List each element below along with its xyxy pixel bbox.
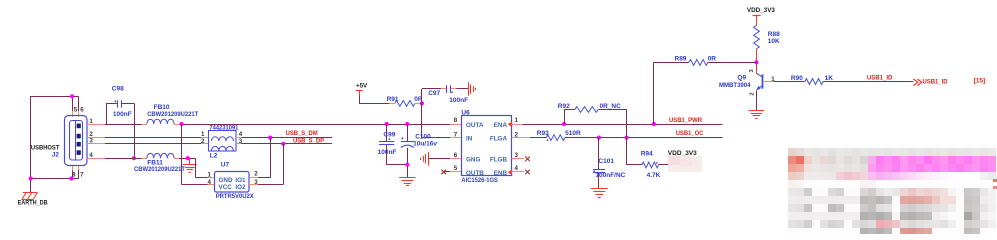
frame border marks right edge — [993, 179, 997, 189]
svg-text:2: 2 — [254, 171, 258, 178]
svg-text:2: 2 — [201, 138, 205, 145]
blur patch over VDD_3V3 symbol — [668, 156, 702, 172]
svg-text:10K: 10K — [768, 38, 780, 45]
resistor R93 — [546, 135, 565, 141]
value PRTR5V0U2X (U7) — [216, 193, 255, 200]
label C97 — [428, 90, 440, 97]
svg-text:USB1_PWR: USB1_PWR — [669, 117, 702, 124]
value 0R (R89) — [708, 55, 717, 62]
capacitor C98 — [115, 100, 122, 107]
svg-text:AIC1526-1GS: AIC1526-1GS — [461, 177, 498, 184]
svg-text:8: 8 — [454, 117, 458, 124]
svg-text:EARTH_DB: EARTH_DB — [18, 200, 48, 207]
label R88 — [768, 31, 780, 38]
pin number 1 (U6) — [515, 117, 519, 124]
svg-text:IO2: IO2 — [235, 184, 246, 191]
svg-text:FLGB: FLGB — [490, 157, 508, 164]
wire C98 left lead — [106, 103, 117, 124]
svg-text:[15]: [15] — [974, 78, 985, 85]
junction pin8/bottom wire — [69, 176, 73, 180]
svg-text:4: 4 — [208, 179, 212, 186]
svg-text:R91: R91 — [387, 96, 399, 103]
label U7 — [221, 161, 230, 168]
pin number 6 (U6) — [454, 152, 458, 159]
capacitor C99 — [379, 138, 394, 144]
wire J2 pin4 stub — [87, 158, 105, 160]
label R94 — [641, 151, 653, 158]
ground at C97 (rotated) — [469, 82, 476, 96]
resistor R92 — [575, 107, 599, 113]
wire OC to R94 — [627, 138, 642, 165]
wire C99 bottom lead — [387, 145, 408, 165]
pin number 8 (U6) — [454, 117, 458, 124]
pin number 3 (Q9) — [749, 69, 755, 73]
svg-text:FB10: FB10 — [154, 104, 170, 111]
choke L2 windings — [212, 137, 234, 151]
pin number 2 (Q9) — [750, 92, 756, 95]
pin number 3 (L2) — [239, 138, 243, 145]
label C99 — [383, 131, 395, 138]
value 744231091 (L2) — [209, 124, 238, 131]
value 510R (R93) — [565, 130, 581, 137]
svg-text:VDD_3V3: VDD_3V3 — [747, 7, 776, 14]
resistor R89 — [689, 60, 708, 66]
wire FB10 left pin — [142, 124, 147, 126]
svg-text:5: 5 — [74, 107, 78, 114]
wire R89 drop to PWR — [653, 62, 655, 124]
net label USB_S_DM — [286, 130, 318, 137]
junction FB10 output node — [179, 122, 183, 126]
junction pin5/earth — [70, 94, 74, 98]
arrow ENA input — [508, 122, 513, 128]
value 100nF/NC (C101) — [595, 172, 625, 179]
svg-text:U7: U7 — [221, 161, 230, 168]
label R93 — [537, 130, 549, 137]
svg-text:L2: L2 — [210, 152, 218, 159]
no-connect X OUTB — [441, 170, 446, 175]
off-page connector USB1_ID — [913, 79, 947, 86]
ground at FB11 node — [183, 158, 197, 172]
pin number 1 (Q9) — [771, 76, 775, 83]
svg-text:PRTR5V0U2X: PRTR5V0U2X — [216, 193, 255, 200]
svg-text:IN: IN — [466, 136, 473, 143]
svg-text:7: 7 — [80, 171, 84, 178]
svg-text:R92: R92 — [558, 103, 570, 110]
svg-text:C97: C97 — [428, 90, 440, 97]
pin number 2 (J2) — [89, 131, 93, 138]
junction FB11 output/ground — [186, 156, 190, 160]
pin name GNG — [466, 157, 480, 164]
svg-text:U6: U6 — [461, 110, 470, 117]
junction R88/R89/collector — [754, 60, 758, 64]
wire C99 top lead — [386, 124, 388, 141]
choke L2 body — [209, 131, 237, 152]
label R89 — [675, 55, 687, 62]
pin name GND (U7) — [219, 177, 233, 184]
pin number 6 (J2) — [80, 107, 84, 114]
pin name IN — [466, 136, 473, 143]
wire J2 pin2 stub — [87, 137, 105, 139]
svg-text:USB1_OC: USB1_OC — [676, 130, 704, 137]
junction C98/GND line — [132, 156, 136, 160]
svg-text:R89: R89 — [675, 55, 687, 62]
label VDD_3V3 at R94 — [668, 150, 698, 157]
svg-text:VCC: VCC — [219, 184, 233, 191]
pin name ENB — [494, 170, 508, 177]
svg-text:ENB: ENB — [494, 170, 508, 177]
pin number 3 (J2) — [89, 138, 93, 145]
junction R94/R92 on OC — [625, 136, 629, 140]
svg-text:C99: C99 — [383, 131, 395, 138]
svg-text:1K: 1K — [825, 75, 834, 82]
wire FB11 left pin — [142, 158, 147, 160]
junction R92 left on PWR — [562, 122, 566, 126]
label C98 — [112, 85, 124, 92]
wire R92 left leg — [564, 110, 575, 125]
junction U7 IO1 on DM — [268, 136, 272, 140]
svg-text:USB_S_DP: USB_S_DP — [293, 137, 325, 144]
svg-text:1: 1 — [208, 172, 212, 179]
wire J2 pin 7 stub — [78, 165, 80, 178]
wire C100 top lead — [407, 124, 409, 141]
svg-text:GNG: GNG — [466, 157, 480, 164]
svg-text:100nF/NC: 100nF/NC — [595, 172, 625, 179]
svg-text:3: 3 — [254, 179, 258, 186]
pin name IO1 (U7) — [235, 177, 246, 184]
svg-text:CBW201209U221T: CBW201209U221T — [134, 166, 185, 173]
svg-text:4: 4 — [515, 165, 519, 172]
ground under Q9 — [749, 111, 765, 119]
power VDD_3V3 symbol — [747, 7, 776, 25]
value 0R_NC (R92) — [600, 103, 622, 110]
svg-text:CBW201209U221T: CBW201209U221T — [147, 111, 198, 118]
pin number 4 (J2) — [89, 152, 93, 159]
wire L2 pin2 stub — [201, 143, 209, 145]
wire C100 bottom lead — [407, 148, 409, 178]
pin number 2 (L2) — [201, 138, 205, 145]
ferrite bead FB10 — [147, 119, 174, 124]
junction U7 IO2 on DP — [281, 142, 285, 146]
ground at GNG (rotated left) — [421, 152, 429, 166]
wire VBUS FB10 to U6 OUTA — [179, 124, 450, 126]
value 100nF (C99) — [378, 149, 397, 156]
wire USB_S_DP — [242, 143, 332, 145]
svg-text:6: 6 — [454, 152, 458, 159]
power switch U6 body — [462, 116, 512, 176]
wire U6 pin8 stub — [450, 124, 461, 126]
wire R89 right — [708, 62, 757, 64]
value 0R (R91) — [414, 96, 423, 103]
pin number 3 (U7) — [254, 179, 258, 186]
label USBHOST — [31, 145, 60, 152]
resistor R91 — [395, 101, 415, 107]
svg-text:OUTB: OUTB — [466, 170, 484, 177]
svg-text:4: 4 — [89, 152, 93, 159]
resistor R90 — [805, 79, 823, 85]
svg-text:100nF: 100nF — [378, 149, 397, 156]
junction R91 node — [420, 101, 424, 105]
label L2 — [210, 152, 218, 159]
value CBW201209U221T (FB10) — [147, 111, 198, 118]
pin name ENA — [494, 122, 508, 129]
svg-text:1: 1 — [515, 117, 519, 124]
label Q9 — [737, 75, 746, 82]
no-connect X ENB — [525, 170, 530, 175]
value 10K (R88) — [768, 38, 780, 45]
power +5V symbol — [356, 83, 368, 96]
wire ground node to U7 GND — [195, 158, 214, 178]
value 100nF (C98) — [113, 111, 132, 118]
wire earth vertical to EARTH_DB — [30, 96, 32, 193]
ground under C101 — [591, 189, 608, 198]
wire C97 to ground — [451, 88, 468, 90]
pin name FLGB — [490, 157, 508, 164]
svg-text:GND: GND — [219, 177, 233, 184]
value 10u/16v (C100) — [413, 141, 437, 148]
junction C99/C100 ground node — [405, 163, 409, 167]
transistor Q9 (NPN) — [756, 73, 763, 90]
svg-text:+: + — [401, 136, 404, 142]
svg-text:USB_S_DM: USB_S_DM — [286, 130, 318, 137]
junction earth/bottom wire — [29, 176, 33, 180]
wire J2 pins 8/7 bottom — [31, 178, 79, 180]
svg-text:2: 2 — [750, 92, 756, 95]
label C100 — [415, 134, 431, 141]
svg-text:Q9: Q9 — [737, 75, 746, 82]
pin name OUTA — [466, 122, 484, 129]
wire U6 OUTB stub — [444, 171, 461, 173]
wire R91 right — [415, 103, 422, 105]
svg-text:0R_NC: 0R_NC — [600, 103, 622, 110]
pin number 2 (U7) — [254, 171, 258, 178]
junction R89 drop on PWR — [652, 122, 656, 126]
svg-text:+5V: +5V — [356, 83, 368, 90]
pin name IO2 (U7) — [235, 184, 246, 191]
pin number 1 (L2) — [201, 131, 205, 138]
wire J2 pin 5 stub — [72, 96, 74, 117]
wire R92 right leg — [598, 110, 626, 138]
value AIC1526-1GS (U6) — [461, 177, 498, 184]
capacitor C101 — [593, 170, 605, 173]
ground EARTH_DB symbol — [22, 193, 38, 200]
wire R89 left — [654, 62, 689, 64]
label R90 — [791, 75, 803, 82]
pin number 5 (U6) — [454, 165, 458, 172]
svg-text:C101: C101 — [598, 158, 614, 165]
svg-text:USB1_ID: USB1_ID — [867, 74, 893, 81]
pin number 4 (U6) — [515, 165, 519, 172]
ground under C99/C100 — [399, 178, 416, 186]
censored mosaic block — [788, 148, 996, 234]
wire USB1_OC — [565, 137, 723, 139]
wire Q9 base to R90 — [763, 81, 805, 83]
svg-text:MMBT3904: MMBT3904 — [719, 82, 751, 89]
svg-text:744231091: 744231091 — [209, 124, 238, 131]
wire U7 IO1 to DM — [249, 138, 270, 178]
junction C101 on OC — [597, 136, 601, 140]
capacitor C97 — [447, 85, 453, 93]
pin number 5 (J2) — [74, 107, 78, 114]
wire USB_S_DM — [242, 137, 332, 139]
wire FB10 right pin — [174, 124, 179, 126]
resistor R94 — [642, 162, 659, 168]
pin name OUTB — [466, 170, 484, 177]
wire Q9 emitter to ground — [756, 91, 758, 111]
wire earth shield top — [31, 96, 79, 98]
value 1K (R90) — [825, 75, 834, 82]
pin number 8 (J2) — [72, 171, 76, 178]
svg-text:1: 1 — [771, 76, 775, 83]
svg-text:R88: R88 — [768, 31, 780, 38]
net label USB1_OC — [676, 130, 704, 137]
wire USB1_ID — [823, 81, 913, 83]
wire FB11 to ground node — [179, 158, 195, 160]
svg-text:OUTA: OUTA — [466, 122, 484, 129]
svg-text:10u/16v: 10u/16v — [413, 141, 437, 148]
svg-text:8: 8 — [72, 171, 76, 178]
svg-text:USB1_ID: USB1_ID — [923, 79, 948, 86]
svg-text:J2: J2 — [52, 151, 59, 158]
wire GND line to FB11 — [105, 158, 142, 160]
wire L2 pin4 stub — [236, 137, 242, 139]
wire J2 pin3 stub — [87, 143, 105, 145]
wire L2 pin3 stub — [236, 143, 242, 145]
label FB10 — [154, 104, 170, 111]
pin number 7 (J2) — [80, 171, 84, 178]
svg-text:3: 3 — [515, 152, 519, 159]
wire C101 top lead — [598, 138, 600, 170]
wire VBUS to FB10 — [105, 124, 142, 126]
pin number 7 (U6) — [454, 131, 458, 138]
wire U7 IO2 to DP — [249, 144, 283, 185]
pin name VCC (U7) — [219, 184, 233, 191]
junction C100 on VBUS — [405, 122, 409, 126]
wire R88 to Q9 collector — [756, 49, 758, 74]
wire R91 node down to U6 IN — [422, 103, 462, 137]
svg-text:5: 5 — [454, 165, 458, 172]
value 100nF (C97) — [449, 97, 468, 104]
label FB11 — [147, 159, 163, 166]
pin number 1 (U7) — [208, 172, 212, 179]
svg-text:100nF: 100nF — [449, 97, 468, 104]
label C101 — [598, 158, 614, 165]
svg-text:R93: R93 — [537, 130, 549, 137]
svg-text:IO1: IO1 — [235, 177, 246, 184]
wire VCC drop FB10 to U7 — [182, 124, 215, 185]
value MMBT3904 (Q9) — [719, 82, 751, 89]
wire +5V to R91 — [359, 96, 395, 104]
wire U6 GNG stub — [429, 158, 461, 160]
wire C98 right lead — [122, 103, 135, 158]
pin number 4 (U7) — [208, 179, 212, 186]
pin number 4 (L2) — [239, 131, 243, 138]
wire DP J2 to L2 — [105, 143, 201, 145]
wire U6 FLGA stub — [512, 137, 547, 139]
wire U6 ENB stub — [512, 171, 525, 173]
svg-text:4.7K: 4.7K — [647, 172, 661, 179]
svg-text:1: 1 — [89, 118, 93, 125]
pin number 1 (J2) — [89, 118, 93, 125]
pin name FLGA — [490, 136, 508, 143]
wire DM J2 to L2 — [105, 137, 201, 139]
net label USB_S_DP — [293, 137, 325, 144]
wire VBUS pin1 stub — [87, 124, 105, 126]
svg-text:510R: 510R — [565, 130, 581, 137]
connector J2 contact squares — [77, 124, 81, 155]
junction C99 on VBUS — [385, 122, 389, 126]
value 4.7K (R94) — [647, 172, 661, 179]
wire FB11 right pin — [174, 158, 179, 160]
svg-text:FLGA: FLGA — [490, 136, 508, 143]
svg-text:100nF: 100nF — [113, 111, 132, 118]
label J2 — [52, 151, 59, 158]
wire R91 node up to C97 — [422, 89, 447, 104]
label U6 — [461, 110, 470, 117]
ferrite bead FB11 — [147, 153, 174, 158]
label EARTH_DB — [18, 200, 48, 207]
ESD diode U7 body — [215, 172, 250, 193]
svg-text:R94: R94 — [641, 151, 653, 158]
svg-text:6: 6 — [80, 107, 84, 114]
svg-text:0R: 0R — [708, 55, 717, 62]
net label USB1_ID — [867, 74, 893, 81]
svg-text:R90: R90 — [791, 75, 803, 82]
arrow ENB input — [508, 169, 513, 175]
wire J2 pin 6 stub — [78, 96, 80, 117]
label R91 — [387, 96, 399, 103]
svg-text:C98: C98 — [112, 85, 124, 92]
svg-text:7: 7 — [454, 131, 458, 138]
wire U6 FLGB stub — [512, 158, 525, 160]
wire L2 pin1 stub — [201, 137, 209, 139]
wire C101 bottom lead — [598, 173, 600, 189]
pin number 2 (U6) — [515, 131, 519, 138]
label R92 — [558, 103, 570, 110]
connector J2 body — [65, 116, 88, 166]
pin number 3 (U6) — [515, 152, 519, 159]
resistor R88 — [754, 25, 760, 49]
value CBW201209U221T (FB11) — [134, 166, 185, 173]
off-page sheet reference [15] — [974, 78, 985, 85]
wire USB1_PWR — [512, 124, 723, 126]
capacitor C100 (polarized) — [401, 136, 414, 147]
net label USB1_PWR — [669, 117, 702, 124]
svg-text:ENA: ENA — [494, 122, 508, 129]
no-connect X FLGB — [525, 157, 530, 162]
wire R94 to VDD_3V3 — [659, 164, 672, 166]
wire J2 pin 8 stub — [72, 165, 74, 178]
